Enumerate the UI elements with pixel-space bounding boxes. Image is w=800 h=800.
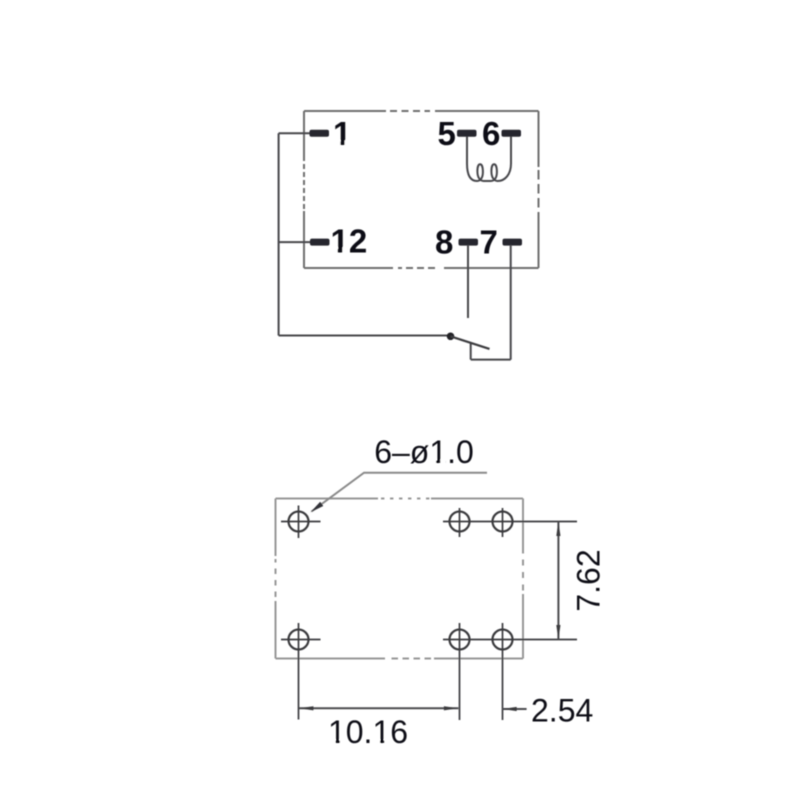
dimension 7.62 line <box>557 522 559 640</box>
wire left vertical (common feed) <box>278 133 280 335</box>
wire bottom horizontal to switch pivot <box>279 335 448 337</box>
svg-text:6: 6 <box>482 115 500 152</box>
pin 6 terminal bar <box>502 130 522 137</box>
extension line through bottom-right holes (7.62 bottom) <box>443 639 577 641</box>
svg-text:8: 8 <box>435 224 453 261</box>
dimension 10.16 line <box>299 707 459 709</box>
hole H6 bottom-right ø1.0 <box>493 623 513 720</box>
pin 8 terminal bar <box>459 239 479 246</box>
pin 12 terminal bar <box>310 239 330 246</box>
wire pin12 stub <box>279 241 312 243</box>
svg-text:2.54: 2.54 <box>531 693 593 729</box>
switch pivot node <box>447 333 455 341</box>
svg-text:5: 5 <box>438 115 456 152</box>
dimension 7.62 arrow up <box>556 522 560 537</box>
svg-text:12: 12 <box>331 222 368 259</box>
footprint outline rectangle (phantom border) <box>276 499 524 659</box>
coil L1 between pins 5 and 6 <box>467 137 511 182</box>
dimension 10.16 arrow left <box>299 706 314 710</box>
hole H1 top-left ø1.0 <box>281 506 321 539</box>
svg-text:6–ø1.0: 6–ø1.0 <box>374 434 474 470</box>
dimension 2.54 outside arrow <box>502 708 526 710</box>
wire pin 8 NO contact <box>467 245 469 318</box>
leader arrowhead <box>311 502 324 512</box>
svg-text:10.16: 10.16 <box>328 714 408 750</box>
svg-text:7.62: 7.62 <box>571 549 607 611</box>
svg-text:1: 1 <box>333 115 351 152</box>
pin 1 terminal bar <box>310 130 330 137</box>
hole H2 top-middle ø1.0 <box>450 508 470 537</box>
wire NC contact vertical <box>470 344 472 360</box>
pin 5 terminal bar <box>457 130 477 137</box>
wire pin 7 bottom horizontal <box>471 359 511 361</box>
dimension 10.16 arrow right <box>444 706 459 710</box>
extension line through top-right holes (7.62 top) <box>443 521 577 523</box>
switch blade armature <box>451 336 490 349</box>
hole H3 top-right ø1.0 <box>493 508 513 537</box>
svg-text:7: 7 <box>480 224 498 261</box>
leader line for hole callout <box>312 473 488 512</box>
wire pin 7 vertical <box>510 245 512 360</box>
wire pin1 stub <box>279 132 312 134</box>
relay outline box (phantom border) <box>304 111 539 268</box>
dimension 7.62 arrow down <box>556 625 560 640</box>
hole H4 bottom-left ø1.0 <box>281 623 321 720</box>
hole H5 bottom-middle ø1.0 <box>450 623 470 720</box>
pin 7 terminal bar <box>503 239 523 246</box>
